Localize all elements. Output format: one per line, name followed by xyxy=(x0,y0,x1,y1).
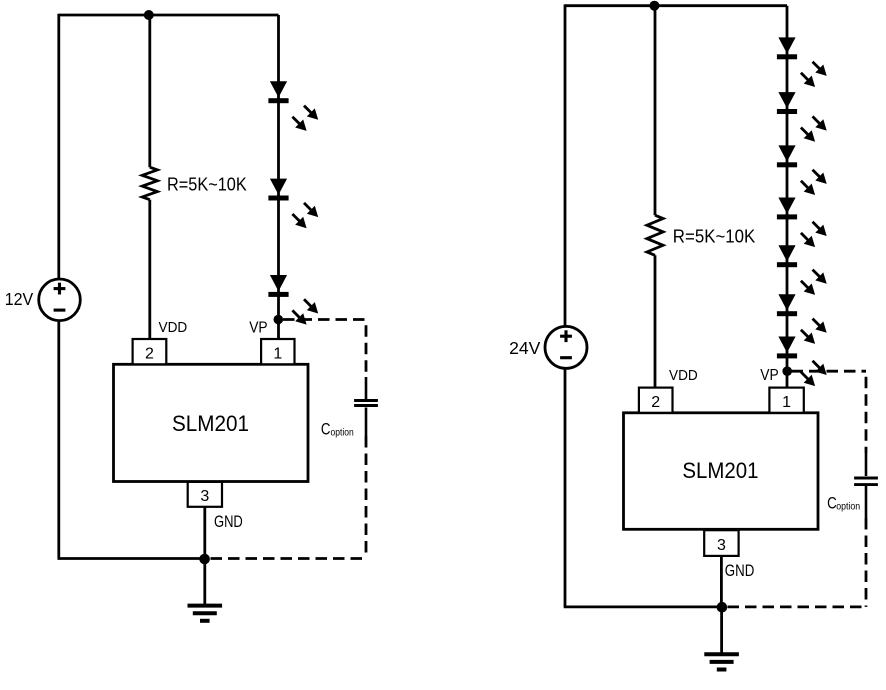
svg-text:3: 3 xyxy=(717,537,726,554)
svg-text:R=5K~10K: R=5K~10K xyxy=(673,227,756,247)
svg-text:VDD: VDD xyxy=(159,319,188,336)
svg-text:1: 1 xyxy=(273,345,282,362)
svg-text:R=5K~10K: R=5K~10K xyxy=(167,175,247,195)
svg-text:VDD: VDD xyxy=(669,367,698,384)
svg-text:option: option xyxy=(836,501,860,512)
svg-text:SLM201: SLM201 xyxy=(172,411,249,436)
svg-text:2: 2 xyxy=(651,394,660,411)
svg-text:3: 3 xyxy=(200,488,209,505)
svg-text:12V: 12V xyxy=(5,289,34,309)
svg-text:VP: VP xyxy=(760,367,778,384)
svg-text:24V: 24V xyxy=(509,338,541,358)
svg-text:C: C xyxy=(321,420,331,439)
svg-text:option: option xyxy=(331,427,354,438)
svg-text:VP: VP xyxy=(249,319,267,336)
svg-text:GND: GND xyxy=(214,513,243,531)
svg-text:GND: GND xyxy=(725,562,755,580)
svg-text:1: 1 xyxy=(782,394,791,411)
svg-text:SLM201: SLM201 xyxy=(682,458,758,483)
svg-text:2: 2 xyxy=(145,345,154,362)
